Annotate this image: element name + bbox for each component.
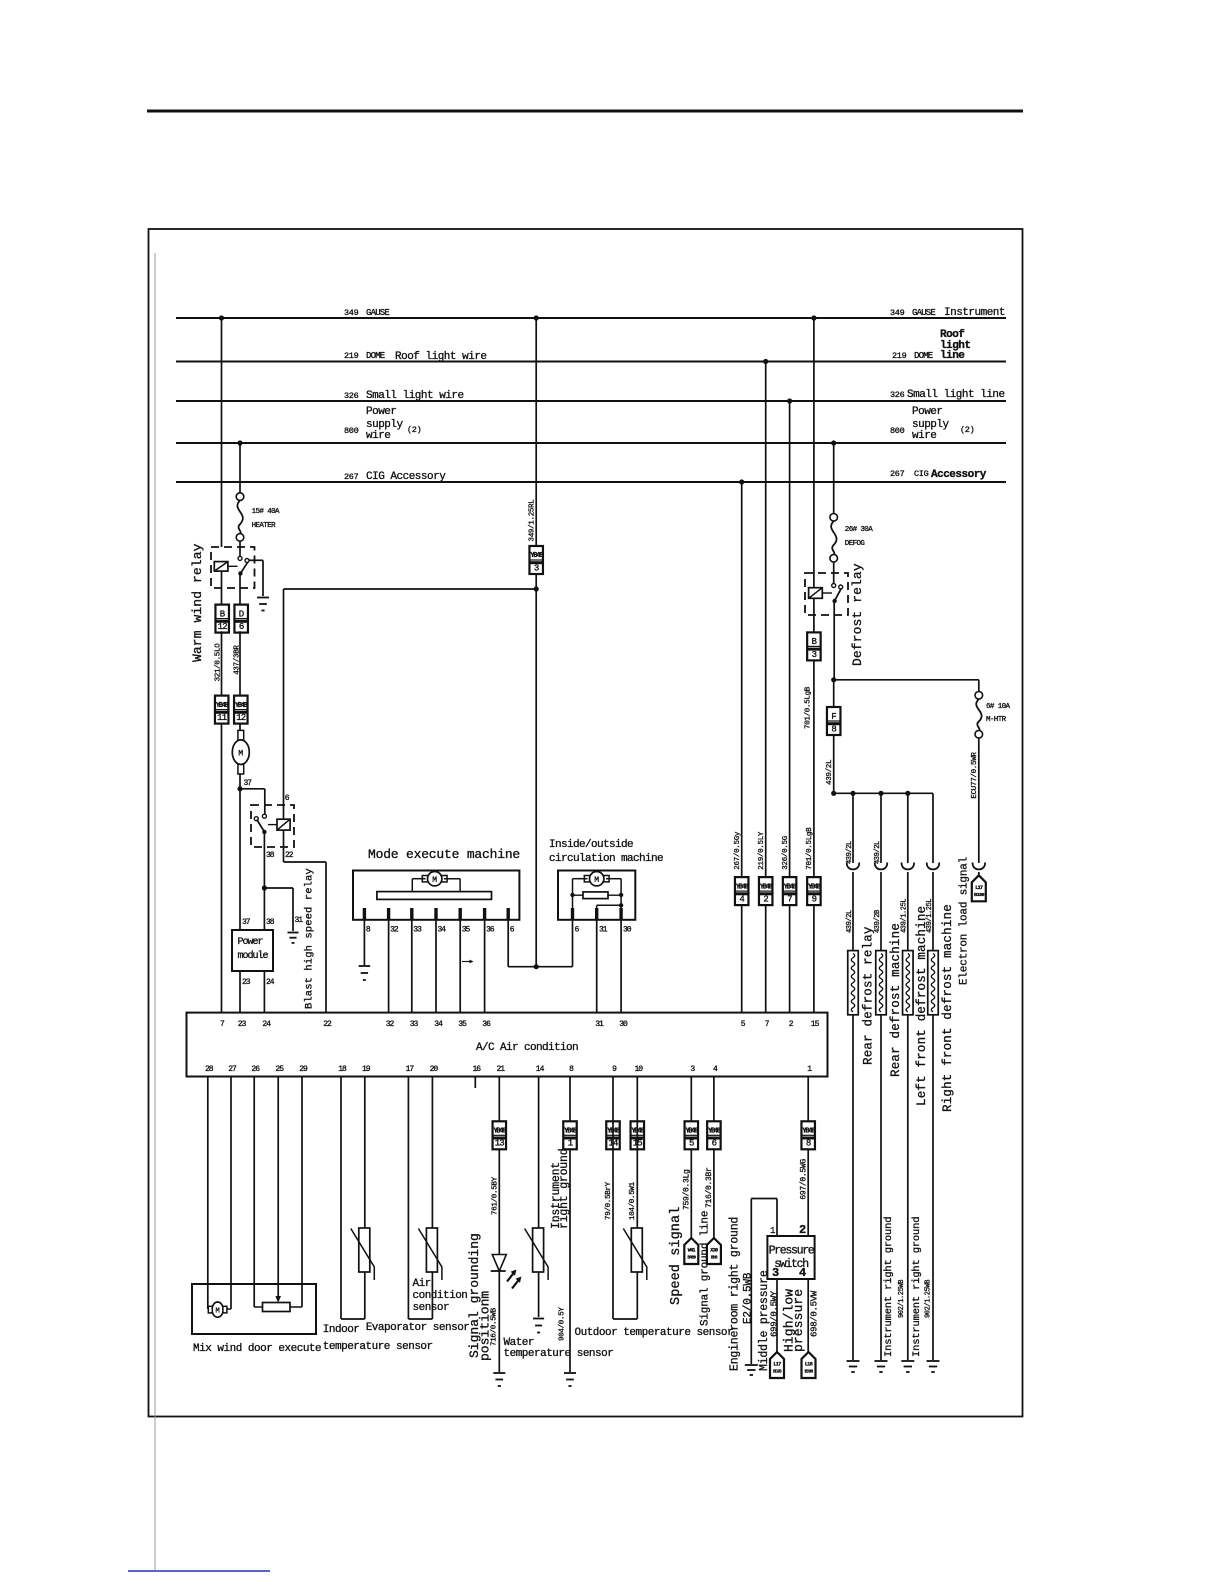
svg-text:439/2L: 439/2L	[826, 759, 834, 785]
svg-text:326: 326	[890, 390, 905, 400]
svg-text:15# 40A: 15# 40A	[252, 508, 280, 516]
svg-text:326/0.5G: 326/0.5G	[782, 835, 790, 869]
svg-text:DEFOG: DEFOG	[845, 540, 866, 548]
svg-text:219/0.5LY: 219/0.5LY	[758, 831, 766, 870]
svg-text:36: 36	[486, 926, 495, 935]
svg-text:17: 17	[406, 1065, 415, 1074]
svg-text:Right front defrost machine: Right front defrost machine	[941, 904, 955, 1112]
svg-text:ECU30: ECU30	[974, 892, 985, 898]
svg-text:902/1.25WB: 902/1.25WB	[898, 1280, 906, 1318]
svg-text:(2): (2)	[960, 425, 974, 435]
svg-text:YB48: YB48	[631, 1128, 644, 1136]
svg-text:Inside/outside: Inside/outside	[549, 839, 633, 851]
svg-text:Instrument right ground: Instrument right ground	[911, 1217, 923, 1357]
svg-text:Speed signal: Speed signal	[669, 1207, 684, 1305]
svg-text:BH6: BH6	[711, 1255, 718, 1261]
svg-text:YB48: YB48	[784, 883, 797, 891]
svg-text:22: 22	[323, 1020, 332, 1029]
svg-text:716/0.3Br: 716/0.3Br	[705, 1167, 714, 1208]
svg-text:437/3BR: 437/3BR	[234, 645, 242, 675]
svg-text:701/0.5LgB: 701/0.5LgB	[806, 827, 814, 870]
svg-text:12: 12	[236, 713, 246, 723]
svg-text:37: 37	[244, 779, 253, 788]
svg-text:759/0.3Lg: 759/0.3Lg	[683, 1169, 692, 1210]
svg-text:13: 13	[495, 1139, 505, 1149]
svg-text:33: 33	[410, 1020, 419, 1029]
svg-text:31: 31	[595, 1020, 604, 1029]
svg-text:Power: Power	[238, 937, 264, 948]
svg-text:5: 5	[689, 1139, 694, 1149]
svg-text:701/0.5LgB: 701/0.5LgB	[805, 686, 813, 729]
svg-text:716/0.5WB: 716/0.5WB	[491, 1307, 499, 1346]
svg-text:18: 18	[338, 1065, 347, 1074]
svg-text:3: 3	[534, 563, 539, 573]
svg-text:104/0.5W1: 104/0.5W1	[629, 1181, 637, 1220]
svg-text:6: 6	[285, 794, 290, 803]
svg-text:pressure: pressure	[791, 1289, 806, 1352]
svg-text:8: 8	[366, 926, 371, 935]
svg-text:267/0.5Gy: 267/0.5Gy	[734, 831, 742, 870]
svg-text:33: 33	[413, 926, 422, 935]
svg-text:CIG: CIG	[914, 469, 929, 479]
svg-text:79/0.5BrY: 79/0.5BrY	[605, 1181, 613, 1220]
svg-text:YB48: YB48	[607, 1128, 620, 1136]
svg-text:6: 6	[575, 926, 580, 935]
svg-text:2: 2	[789, 1020, 794, 1029]
svg-text:7: 7	[220, 1020, 225, 1029]
svg-text:YB48: YB48	[235, 702, 248, 710]
svg-text:698/0.5VW: 698/0.5VW	[810, 1290, 820, 1337]
svg-text:8: 8	[831, 724, 836, 734]
svg-text:Small light line: Small light line	[907, 389, 1005, 401]
svg-text:Outdoor temperature sensor: Outdoor temperature sensor	[575, 1327, 734, 1339]
svg-text:15: 15	[633, 1139, 643, 1149]
svg-text:Left front defrost machine: Left front defrost machine	[915, 906, 929, 1106]
svg-text:12: 12	[218, 622, 228, 632]
svg-text:11: 11	[217, 713, 227, 723]
svg-text:31: 31	[295, 916, 304, 925]
svg-text:800: 800	[344, 426, 359, 436]
svg-text:23: 23	[242, 978, 251, 987]
svg-text:A/C Air condition: A/C Air condition	[476, 1042, 578, 1054]
svg-text:D: D	[239, 609, 244, 619]
svg-text:9: 9	[612, 1065, 617, 1074]
svg-text:35: 35	[458, 1020, 467, 1029]
svg-text:E2/0.5WB: E2/0.5WB	[742, 1272, 754, 1324]
svg-text:15: 15	[811, 1020, 820, 1029]
svg-text:4: 4	[713, 1065, 718, 1074]
svg-text:37: 37	[242, 918, 251, 927]
svg-text:Defrost relay: Defrost relay	[850, 563, 865, 666]
svg-text:Pressure: Pressure	[769, 1245, 815, 1258]
svg-text:L17: L17	[975, 885, 983, 891]
svg-text:M: M	[432, 876, 437, 885]
svg-text:38: 38	[266, 851, 275, 860]
svg-text:36: 36	[482, 1020, 491, 1029]
svg-text:YB48: YB48	[685, 1128, 698, 1136]
svg-text:1: 1	[568, 1139, 573, 1149]
svg-text:BA80: BA80	[687, 1255, 696, 1261]
svg-text:35: 35	[462, 926, 471, 935]
svg-text:Air: Air	[413, 1278, 431, 1290]
svg-text:904/0.5Y: 904/0.5Y	[559, 1307, 567, 1341]
svg-text:right ground: right ground	[558, 1149, 571, 1229]
svg-text:Accessory: Accessory	[931, 469, 987, 481]
svg-text:Mix wind door execute: Mix wind door execute	[193, 1343, 321, 1355]
svg-text:349/1.25RL: 349/1.25RL	[529, 499, 537, 542]
svg-text:2: 2	[799, 1223, 806, 1237]
svg-text:34: 34	[434, 1020, 443, 1029]
svg-text:W41: W41	[688, 1248, 696, 1254]
svg-text:module: module	[238, 950, 269, 962]
svg-text:Evaporator sensor: Evaporator sensor	[366, 1322, 470, 1334]
svg-text:GAUSE: GAUSE	[912, 308, 935, 318]
svg-text:30: 30	[619, 1020, 628, 1029]
svg-text:Rear defrost relay: Rear defrost relay	[861, 926, 875, 1065]
svg-text:M: M	[594, 876, 599, 885]
svg-text:YB48: YB48	[530, 552, 543, 560]
svg-text:DOME: DOME	[914, 351, 933, 361]
svg-text:EC25: EC25	[773, 1369, 782, 1375]
svg-text:B: B	[811, 637, 817, 647]
svg-text:M-HTR: M-HTR	[986, 716, 1007, 724]
svg-text:26# 30A: 26# 30A	[845, 526, 873, 534]
svg-text:YB48: YB48	[708, 1128, 721, 1136]
svg-text:697/0.5WG: 697/0.5WG	[799, 1159, 808, 1200]
svg-text:6: 6	[510, 926, 515, 935]
svg-text:YB48: YB48	[216, 702, 229, 710]
svg-text:3: 3	[772, 1266, 779, 1280]
svg-text:7: 7	[765, 1020, 770, 1029]
svg-text:800: 800	[890, 426, 905, 436]
svg-text:14: 14	[608, 1139, 618, 1149]
svg-text:32: 32	[386, 1020, 395, 1029]
svg-text:32: 32	[390, 926, 399, 935]
svg-text:sensor: sensor	[413, 1302, 450, 1314]
svg-text:699/0.5WY: 699/0.5WY	[770, 1290, 780, 1337]
svg-text:22: 22	[285, 851, 294, 860]
svg-text:F: F	[831, 712, 836, 722]
svg-text:condition: condition	[413, 1290, 468, 1302]
svg-text:2: 2	[763, 895, 768, 905]
svg-text:25: 25	[275, 1065, 284, 1074]
svg-text:6: 6	[712, 1139, 717, 1149]
svg-text:B: B	[220, 609, 226, 619]
svg-text:21: 21	[496, 1065, 505, 1074]
svg-text:31: 31	[599, 926, 608, 935]
svg-text:29: 29	[299, 1065, 308, 1074]
svg-text:4: 4	[739, 895, 744, 905]
svg-text:24: 24	[266, 978, 275, 987]
svg-text:1: 1	[770, 1226, 775, 1236]
svg-text:439/2L: 439/2L	[846, 841, 854, 864]
svg-text:EC66: EC66	[805, 1369, 814, 1375]
svg-text:M: M	[238, 749, 243, 758]
svg-text:349: 349	[890, 308, 905, 318]
svg-text:4: 4	[799, 1266, 806, 1280]
svg-text:3: 3	[690, 1065, 695, 1074]
svg-text:321/0.5LO: 321/0.5LO	[215, 643, 223, 682]
svg-text:219: 219	[892, 351, 907, 361]
svg-text:wire: wire	[366, 430, 390, 442]
svg-text:Instrument right ground: Instrument right ground	[883, 1217, 895, 1357]
svg-text:6: 6	[239, 622, 244, 632]
svg-text:(2): (2)	[407, 425, 421, 435]
svg-text:219: 219	[344, 351, 359, 361]
svg-text:L18: L18	[805, 1362, 813, 1368]
svg-text:temperature sensor: temperature sensor	[504, 1348, 614, 1360]
svg-text:circulation machine: circulation machine	[549, 853, 663, 865]
svg-text:439/2L: 439/2L	[846, 910, 854, 933]
svg-text:16: 16	[472, 1065, 481, 1074]
svg-text:wire: wire	[912, 430, 936, 442]
svg-text:YB48: YB48	[736, 883, 749, 891]
svg-text:Indoor: Indoor	[323, 1324, 360, 1336]
svg-text:Power: Power	[366, 406, 397, 418]
svg-text:Warm wind relay: Warm wind relay	[190, 543, 205, 662]
svg-text:23: 23	[238, 1020, 247, 1029]
svg-text:8: 8	[569, 1065, 574, 1074]
svg-text:Electron load signal: Electron load signal	[959, 857, 971, 985]
svg-text:439/2L: 439/2L	[874, 841, 882, 864]
svg-text:24: 24	[262, 1020, 271, 1029]
svg-text:38: 38	[266, 918, 275, 927]
svg-text:28: 28	[205, 1065, 214, 1074]
svg-text:L17: L17	[773, 1362, 781, 1368]
svg-text:Blast high speed relay: Blast high speed relay	[304, 868, 316, 1009]
svg-text:761/0.5BY: 761/0.5BY	[492, 1176, 500, 1215]
svg-text:8: 8	[806, 1139, 811, 1149]
svg-text:1: 1	[807, 1065, 812, 1074]
svg-text:YB48: YB48	[802, 1128, 815, 1136]
svg-text:YB48: YB48	[493, 1128, 506, 1136]
svg-text:Small light wire: Small light wire	[366, 390, 464, 402]
svg-text:30: 30	[623, 926, 632, 935]
svg-text:20: 20	[430, 1065, 439, 1074]
svg-text:267: 267	[344, 472, 359, 482]
svg-text:14: 14	[536, 1065, 545, 1074]
svg-text:326: 326	[344, 391, 359, 401]
svg-text:YB48: YB48	[808, 883, 821, 891]
svg-text:YB48: YB48	[760, 883, 773, 891]
svg-text:line: line	[940, 350, 965, 362]
svg-text:6# 10A: 6# 10A	[986, 703, 1011, 711]
svg-text:27: 27	[228, 1065, 237, 1074]
svg-text:Signal ground line: Signal ground line	[700, 1211, 712, 1326]
svg-text:HEATER: HEATER	[252, 522, 277, 530]
svg-text:DOME: DOME	[366, 351, 385, 361]
svg-text:Rear defrost machine: Rear defrost machine	[889, 923, 903, 1077]
svg-text:19: 19	[362, 1065, 371, 1074]
svg-text:ECU77/0.5WR: ECU77/0.5WR	[971, 752, 979, 799]
svg-text:349: 349	[344, 308, 359, 318]
svg-text:10: 10	[634, 1065, 643, 1074]
svg-text:7: 7	[787, 895, 792, 905]
svg-text:temperature sensor: temperature sensor	[323, 1341, 433, 1353]
svg-text:34: 34	[438, 926, 447, 935]
svg-text:CIG Accessory: CIG Accessory	[366, 471, 446, 483]
svg-text:Roof light wire: Roof light wire	[395, 351, 487, 363]
svg-text:M: M	[215, 1308, 219, 1316]
svg-text:X30: X30	[710, 1248, 718, 1254]
svg-text:9: 9	[812, 895, 817, 905]
svg-text:3: 3	[812, 650, 817, 660]
svg-text:Mode execute machine: Mode execute machine	[368, 847, 520, 862]
svg-text:GAUSE: GAUSE	[366, 308, 389, 318]
svg-text:26: 26	[251, 1065, 260, 1074]
svg-text:YB48: YB48	[564, 1128, 577, 1136]
svg-text:Engineroom right ground: Engineroom right ground	[729, 1217, 742, 1371]
svg-text:Instrument: Instrument	[944, 307, 1005, 319]
svg-text:Power: Power	[912, 406, 943, 418]
svg-text:267: 267	[890, 469, 905, 479]
svg-text:902/1.25WB: 902/1.25WB	[925, 1280, 933, 1318]
svg-text:5: 5	[741, 1020, 746, 1029]
